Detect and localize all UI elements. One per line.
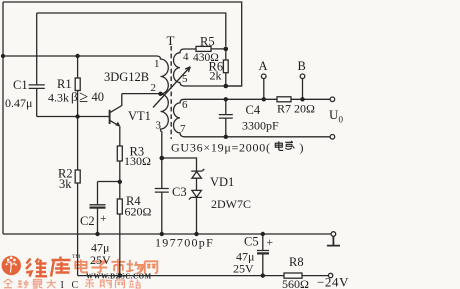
svg-text:U: U [329, 107, 339, 122]
transformer T primary winding 1-2-3 [157, 56, 168, 158]
glyph gou [100, 280, 111, 288]
wire emitter bypass [98, 181, 120, 183]
svg-text:R1: R1 [57, 77, 72, 91]
capacitor C1 [29, 13, 45, 117]
glyph dian2 [75, 260, 88, 273]
svg-text:GU36×19μ=2000(: GU36×19μ=2000( [171, 141, 271, 155]
svg-text:R7 20Ω: R7 20Ω [277, 102, 315, 116]
junction C5 ground [261, 232, 265, 236]
ground terminal [331, 232, 336, 237]
transformer core [170, 46, 172, 139]
wire inner top rail [37, 13, 226, 46]
svg-text:40: 40 [92, 90, 105, 104]
junction R4 line to -24V rail [118, 273, 122, 277]
svg-text:3DG12B: 3DG12B [104, 70, 149, 84]
svg-text:TM: TM [72, 254, 80, 260]
capacitor C3 [155, 158, 169, 234]
svg-text:197700pF: 197700pF [155, 236, 214, 250]
wire ground rail [3, 233, 331, 235]
glyph gan [285, 141, 294, 149]
glyph wang [145, 261, 158, 273]
resistor R7 [277, 97, 291, 102]
junction collector / pin 2 [158, 92, 162, 96]
capacitor C2 [90, 182, 106, 235]
svg-text:5: 5 [182, 73, 188, 85]
svg-text:2DW7C: 2DW7C [211, 197, 251, 211]
junction C4 bottom [224, 135, 228, 139]
terminal Uo top [330, 97, 335, 102]
watermark weiku characters [26, 257, 71, 277]
glyph shi [112, 259, 126, 274]
junction emitter divider [118, 180, 122, 184]
svg-text:C5: C5 [244, 235, 259, 249]
resistor R6 [225, 49, 227, 60]
svg-text:VT1: VT1 [128, 109, 151, 123]
transformer secondary winding 6-7 [174, 99, 185, 136]
glyph quan [4, 279, 13, 288]
svg-text:560Ω: 560Ω [282, 277, 309, 289]
glyph chang [126, 260, 143, 274]
svg-text:25V: 25V [90, 253, 111, 267]
resistor R1 [77, 56, 79, 78]
svg-text:25V: 25V [233, 262, 254, 276]
resistor R3 [117, 146, 122, 161]
svg-text:620Ω: 620Ω [125, 205, 152, 219]
junction VD1 ground [194, 232, 198, 236]
terminal Uo bottom [330, 135, 335, 140]
wire node3 to VD1 [162, 158, 197, 171]
junction B stem [300, 97, 304, 101]
svg-text:C1: C1 [13, 78, 28, 92]
junction R5 R6 rail [224, 47, 229, 52]
svg-text:C2: C2 [80, 214, 95, 228]
svg-text:C4: C4 [246, 103, 261, 117]
resistor R2 [77, 117, 79, 171]
junction C4 top [224, 97, 228, 101]
svg-text:2k: 2k [210, 69, 222, 83]
svg-text:+: + [100, 213, 107, 225]
svg-text:130Ω: 130Ω [124, 154, 151, 168]
wire -24V rail [78, 275, 329, 277]
svg-text:7: 7 [180, 123, 186, 135]
wire left rail [2, 2, 4, 234]
junction R6 bottom / pin 5 [224, 84, 229, 89]
test point A [263, 79, 265, 100]
capacitor C5 [257, 234, 269, 276]
glyph wang2 [116, 280, 125, 288]
svg-text:3: 3 [156, 120, 162, 132]
glyph dian [275, 141, 283, 150]
svg-text:0: 0 [339, 115, 344, 125]
wire upper rail y56 [3, 55, 157, 57]
glyph wei [26, 259, 32, 277]
svg-text:−24V: −24V [317, 275, 349, 289]
junction base node [75, 114, 79, 118]
watermark logo circle [2, 256, 21, 275]
transistor VT1 [109, 110, 111, 124]
wire outer top loop [3, 2, 242, 86]
svg-text:4.3k: 4.3k [48, 91, 69, 105]
watermark bottom row quanqiuzuida IC caigouwangzhan [4, 279, 141, 289]
watermark dianzishichangwang [75, 259, 157, 274]
svg-text:I: I [61, 280, 64, 289]
svg-text:C3: C3 [172, 185, 187, 199]
svg-text:0.47μ: 0.47μ [5, 96, 32, 110]
glyph zi [92, 262, 108, 273]
svg-text:T: T [167, 33, 175, 48]
svg-text:R8: R8 [289, 255, 304, 269]
variable coupling arrow [153, 67, 190, 108]
junction A stem [262, 97, 266, 101]
wire base node [37, 116, 110, 118]
CJK glyphs for (dian gan) in GU36 line [275, 141, 294, 150]
junction C5 bottom -24V [261, 273, 265, 277]
glyph qiu [18, 280, 29, 288]
glyph zhan [129, 280, 141, 289]
svg-text:β: β [71, 89, 78, 104]
resistor R4 [117, 199, 122, 214]
svg-text:4: 4 [183, 51, 189, 63]
transformer secondary winding 4-5 [174, 49, 242, 86]
junction pin 3 node [160, 156, 165, 161]
glyph cai [86, 280, 95, 289]
ground symbol [327, 236, 340, 245]
terminal -24V [328, 273, 332, 277]
glyph ku [51, 257, 71, 277]
svg-text:+: + [267, 237, 274, 249]
svg-text:): ) [300, 141, 304, 155]
svg-text:2: 2 [151, 82, 157, 94]
resistor R8 [284, 273, 302, 278]
svg-text:R5: R5 [200, 35, 215, 49]
glyph zui [33, 280, 43, 289]
wire output top [184, 98, 330, 100]
svg-text:VD1: VD1 [210, 175, 234, 189]
junction R1 top [75, 54, 79, 58]
zener diode VD1 [191, 169, 204, 171]
glyph da [47, 280, 57, 289]
svg-text:1: 1 [154, 58, 160, 70]
junction C2 ground [95, 232, 99, 236]
svg-text:C: C [72, 280, 79, 289]
svg-text:6: 6 [182, 99, 188, 111]
svg-text:3k: 3k [59, 177, 72, 191]
svg-text:A: A [259, 59, 268, 73]
svg-text:≥: ≥ [79, 87, 88, 106]
junction C3 ground [160, 232, 164, 236]
capacitor C4 [219, 99, 233, 137]
wire collector [122, 93, 161, 95]
svg-text:3300pF: 3300pF [242, 119, 279, 133]
resistor R5 [196, 46, 211, 51]
test point B [302, 79, 304, 100]
wire output bottom [184, 136, 330, 138]
svg-text:B: B [298, 59, 306, 73]
junction left rail / upper rail [1, 54, 5, 58]
